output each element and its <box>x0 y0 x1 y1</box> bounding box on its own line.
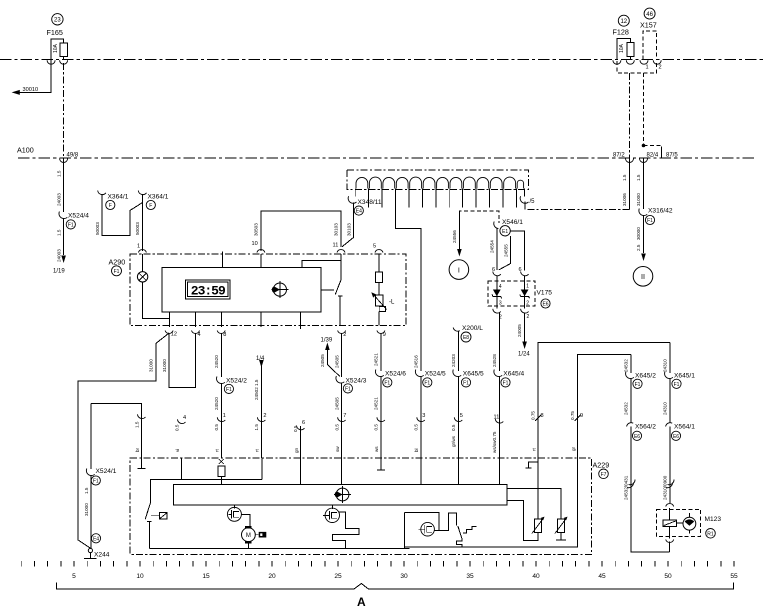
svg-text:0.75: 0.75 <box>570 411 575 420</box>
A290 bottom pin 2 arc <box>338 331 347 338</box>
wire 24521 A290 pin9 to X524/6 <box>374 333 381 371</box>
pin 6 labels and arcs above V175 <box>492 267 529 284</box>
wire 24003 (A100 49/8 down to X524/4) <box>57 159 64 213</box>
svg-text:31000: 31000 <box>84 503 89 516</box>
thermal fuse and resistor on A229 pin wire <box>218 459 225 485</box>
svg-text:24005: 24005 <box>517 324 522 337</box>
svg-text:6: 6 <box>519 267 522 273</box>
wire 24532 down to X645/2 <box>624 355 631 373</box>
ruler scale <box>21 561 734 567</box>
A290 clock module inner box <box>162 267 321 312</box>
svg-text:1/24: 1/24 <box>518 352 530 358</box>
wire 24521 X524/6 into A229 <box>374 376 385 458</box>
V175 bottom arcs and pin 2 labels <box>493 302 530 321</box>
A290 pin 1 arc <box>137 244 146 253</box>
connector X564/1 <box>666 423 696 441</box>
svg-text:0.5: 0.5 <box>293 425 298 432</box>
wire pin10 to pin11 overhead link <box>254 211 342 251</box>
svg-text:30103: 30103 <box>334 223 339 236</box>
wire X546/1 right branch <box>510 231 524 271</box>
lamp in A290 <box>137 254 169 319</box>
svg-text:I: I <box>458 265 460 274</box>
wire 24505 X524/3 into A229 <box>334 383 346 459</box>
zener diode right in V175 <box>520 284 530 303</box>
A290 pin 5 arc <box>373 244 383 253</box>
svg-text:82/4: 82/4 <box>647 153 659 159</box>
A290 bottom pin 8 arc <box>217 331 226 338</box>
svg-text:X364/1: X364/1 <box>148 193 169 200</box>
svg-text:0.5: 0.5 <box>334 424 339 431</box>
svg-text:ws: ws <box>374 446 379 452</box>
junction bump 49/8 on A100 line <box>60 159 68 163</box>
connector X564/2 <box>627 423 657 441</box>
V175 pin labels <box>499 284 529 307</box>
svg-text:24310/0900: 24310/0900 <box>663 475 668 500</box>
svg-text:10A: 10A <box>619 43 625 53</box>
wire 30010 to arrow <box>12 60 52 95</box>
transistor Q3 (MOSFET) with switch <box>404 512 476 547</box>
ground point X244 <box>84 548 110 558</box>
svg-text:24555: 24555 <box>503 244 508 257</box>
svg-text:X524/6: X524/6 <box>385 370 406 377</box>
junction bump X157 pin2 <box>653 60 661 64</box>
svg-text:gr/ws: gr/ws <box>451 435 456 447</box>
A229 internal stub pin with bar (left) <box>137 458 145 468</box>
svg-text:1: 1 <box>646 64 649 70</box>
connector X348/11 end arc <box>348 196 382 215</box>
wire 24505 A290 pin2 to X524/3 <box>334 333 341 377</box>
svg-text:24556: 24556 <box>452 230 457 243</box>
svg-text:8: 8 <box>541 413 544 419</box>
svg-text:F1: F1 <box>424 380 430 386</box>
connector X364/1 right <box>138 191 168 210</box>
A290 bottom pin 9 arc <box>377 331 386 338</box>
connector strip X348/11 contact humps and pins <box>355 177 524 207</box>
svg-text:20: 20 <box>268 573 276 580</box>
unit A290 label <box>109 257 126 276</box>
svg-text:24554: 24554 <box>489 240 494 253</box>
connector X524/1 <box>86 468 116 485</box>
svg-text:8: 8 <box>223 332 226 338</box>
wire 24554 <box>489 229 496 271</box>
wire X645/5 into A229 <box>451 376 463 458</box>
circled ref 46 <box>644 8 655 19</box>
connector X524/6 <box>375 370 406 388</box>
svg-text:11: 11 <box>333 243 339 249</box>
pump unit M123 dashed housing <box>657 509 701 536</box>
wire stub A290 pin6 resume into A229 <box>293 420 305 458</box>
svg-text:F1: F1 <box>503 380 509 386</box>
svg-text:24520: 24520 <box>214 355 219 368</box>
svg-text:2: 2 <box>343 332 346 338</box>
svg-text:3: 3 <box>422 413 425 419</box>
wire X645/4 into A229 <box>492 376 503 458</box>
A290 bottom pin 4 arc <box>192 331 201 338</box>
svg-text:24521: 24521 <box>374 353 379 366</box>
svg-text:50: 50 <box>664 573 672 580</box>
junction bump F128 left on bus <box>613 60 621 64</box>
bus wire A100 boundary line <box>18 157 756 159</box>
wire 24528 from V175 pin 3 down <box>492 313 499 372</box>
svg-text:1/39: 1/39 <box>321 338 333 344</box>
svg-text:X564/1: X564/1 <box>674 423 695 430</box>
wire inner box top right corner route <box>302 260 341 267</box>
svg-text:10: 10 <box>136 573 144 580</box>
svg-text:45: 45 <box>598 573 606 580</box>
junction bump F165 right on bus <box>60 60 68 64</box>
wire 24532 to X564/2 <box>624 378 631 423</box>
svg-text:-L: -L <box>389 300 395 306</box>
junction bump F165 left on bus <box>47 60 55 64</box>
connector X645/2 <box>626 372 657 389</box>
svg-text:12: 12 <box>620 19 627 25</box>
svg-text:R1: R1 <box>707 531 714 537</box>
svg-text:2: 2 <box>263 413 266 419</box>
svg-text:0.5: 0.5 <box>374 424 379 431</box>
svg-text:X645/5: X645/5 <box>463 370 484 377</box>
svg-text:30000: 30000 <box>636 227 641 240</box>
switch in A290 <box>321 254 342 326</box>
svg-text:30010: 30010 <box>23 87 39 93</box>
svg-text:24505: 24505 <box>334 355 339 368</box>
svg-text:X645/1: X645/1 <box>674 372 695 379</box>
svg-text:F1: F1 <box>647 218 653 224</box>
wire 24505 branch arrow to ref 1/39 <box>320 338 340 377</box>
svg-text:24532: 24532 <box>624 402 629 415</box>
svg-text:2: 2 <box>527 314 530 320</box>
svg-text:ws/sw0.75: ws/sw0.75 <box>492 431 497 453</box>
svg-text:2: 2 <box>659 64 662 70</box>
svg-text:1.5: 1.5 <box>254 424 259 431</box>
svg-text:F1: F1 <box>635 382 641 388</box>
svg-text:31000: 31000 <box>149 359 154 372</box>
svg-text:X364/1: X364/1 <box>108 193 129 200</box>
connector X645/1 <box>665 372 696 389</box>
wire ground from A290 pin12 diagonal branch <box>78 333 169 549</box>
wire 24556 with arrow to ref I <box>452 211 462 256</box>
A229 internal header wire <box>151 458 262 502</box>
svg-text:1.5: 1.5 <box>134 421 139 428</box>
circled ref 23 <box>52 14 63 25</box>
A229 left ground bus <box>149 547 409 549</box>
wire F165 output down to A100 terminal 49/8 <box>64 63 79 159</box>
connector X524/3 <box>336 376 367 393</box>
wires into circuit board top <box>301 458 500 484</box>
svg-text:X524/4: X524/4 <box>68 213 89 220</box>
svg-text:X645/4: X645/4 <box>503 370 524 377</box>
svg-text:31000: 31000 <box>636 193 641 206</box>
svg-text:9: 9 <box>383 332 386 338</box>
wire 24310 to X564/1 <box>663 378 670 423</box>
svg-text:1/19: 1/19 <box>53 269 65 275</box>
svg-text:87/5: 87/5 <box>666 153 678 159</box>
svg-text:F1: F1 <box>345 386 351 392</box>
clock display 23:59 <box>185 280 230 299</box>
junction bump F128 right on bus <box>626 60 634 64</box>
svg-text:24003: 24003 <box>57 249 62 262</box>
wire inner box bottom pins to A290 case edge <box>170 312 301 329</box>
svg-text:X316/42: X316/42 <box>648 208 673 215</box>
wire 87/2 (F128 down to A100) <box>613 73 630 159</box>
unit A229 label <box>593 460 610 478</box>
svg-text:12: 12 <box>171 331 177 337</box>
svg-text:bl: bl <box>414 448 419 452</box>
circled ref 12 <box>618 15 629 26</box>
svg-text:6: 6 <box>302 420 305 426</box>
svg-text:F: F <box>149 203 152 209</box>
wire ground header to A229 <box>91 403 146 469</box>
svg-text:4: 4 <box>198 332 201 338</box>
svg-text:2: 2 <box>526 301 529 307</box>
svg-text:49/8: 49/8 <box>67 153 79 159</box>
unit A229 housing (dash-dot) <box>130 458 591 554</box>
svg-text:0.75: 0.75 <box>531 411 536 420</box>
svg-text:E8: E8 <box>463 335 469 341</box>
fuse F165 <box>51 39 67 60</box>
wire A229 pin (violet) labels <box>174 415 186 452</box>
wire 24310/0900 down to M123 <box>663 427 674 504</box>
wire 24520 A290 pin8 to X524/2 <box>214 333 221 377</box>
unit A290 housing (dash-dot) <box>130 254 406 326</box>
wire ground bridge pin12 to pin4 <box>162 333 196 387</box>
connector X645/5 <box>453 370 484 388</box>
svg-text:4: 4 <box>183 415 186 421</box>
svg-text:1.5: 1.5 <box>57 170 62 177</box>
svg-text:X564/2: X564/2 <box>635 423 656 430</box>
svg-text:br: br <box>135 447 140 452</box>
wire X157 pin1 dashed down <box>642 73 679 159</box>
svg-text:24516: 24516 <box>413 355 418 368</box>
transistor Q1 (MOSFET) driving motor <box>227 505 250 528</box>
svg-text:11: 11 <box>494 415 500 421</box>
svg-text:24521: 24521 <box>374 397 379 410</box>
svg-text:7: 7 <box>343 413 346 419</box>
connector X157 dashed housing <box>643 31 657 60</box>
A229 internal hook stub near pin 8 wire <box>526 462 539 468</box>
svg-text:X244: X244 <box>94 551 110 558</box>
variable resistor with arrow and L label <box>371 292 395 326</box>
wire 31006 (87/2 down then left to strip /5) <box>525 159 629 210</box>
A290 pin 10 arc <box>252 241 265 253</box>
svg-text:E4: E4 <box>93 536 99 542</box>
svg-text:0.5: 0.5 <box>174 424 179 431</box>
svg-text:/5: /5 <box>530 199 536 205</box>
svg-text:1.5: 1.5 <box>84 487 89 494</box>
ruler numbers <box>72 573 738 580</box>
connector X524/2 <box>217 377 248 394</box>
svg-text:vi: vi <box>175 449 180 452</box>
connector X546/1 <box>494 219 523 236</box>
wire 24003 below X524/4 to ref 1/19 <box>53 218 66 275</box>
svg-text:24532/0431: 24532/0431 <box>624 475 629 500</box>
A229 right return bus <box>403 512 405 548</box>
clock symbol in A229 <box>334 486 351 503</box>
svg-text:F128: F128 <box>613 28 629 37</box>
wire 24555 <box>499 236 511 270</box>
svg-text:F1: F1 <box>226 387 232 393</box>
svg-text:87/2: 87/2 <box>613 153 625 159</box>
svg-text:24528: 24528 <box>492 354 497 367</box>
connector X316/42 <box>639 208 673 225</box>
svg-text:0.5: 0.5 <box>413 424 418 431</box>
A229 internal circuit board box <box>174 485 507 505</box>
svg-text:10: 10 <box>252 241 258 247</box>
svg-text:24505: 24505 <box>334 397 339 410</box>
svg-text:A290: A290 <box>109 257 126 266</box>
svg-text:24203: 24203 <box>451 354 456 367</box>
fuse F128 <box>617 38 634 59</box>
motor M in A229 <box>242 526 267 549</box>
bracket A below <box>57 583 734 610</box>
svg-text:46: 46 <box>646 12 653 18</box>
svg-text:F1: F1 <box>93 479 99 485</box>
bus wire circuit 30 (top dash-dot rail) <box>0 59 763 61</box>
svg-text:40: 40 <box>532 573 540 580</box>
svg-text:1.5: 1.5 <box>57 229 62 236</box>
wire 30000 to ref II <box>636 215 646 261</box>
svg-text:5: 5 <box>72 573 76 580</box>
svg-text:1: 1 <box>223 413 226 419</box>
node circle II <box>633 267 653 287</box>
inner box pin to A290 pin 10 <box>260 254 262 267</box>
A290 pin 11 arc <box>333 243 346 253</box>
clock symbol in A290 <box>271 281 288 298</box>
svg-text:X157: X157 <box>640 20 657 29</box>
dashed wire from ref I corner to X546/1 <box>459 211 498 223</box>
svg-text:M123: M123 <box>705 516 722 523</box>
dashed holder outline below bus (F128/X157) <box>617 61 657 73</box>
svg-text:X524/5: X524/5 <box>425 370 446 377</box>
svg-text:23:59: 23:59 <box>191 284 226 299</box>
connector X364/1 left <box>98 191 129 210</box>
connector X645/4 <box>494 370 525 388</box>
connector X524/5 <box>415 370 446 388</box>
wire 24532/0431 down and loop to M123 bottom <box>624 427 670 552</box>
svg-text:F1: F1 <box>114 269 120 275</box>
svg-text:F1: F1 <box>463 380 469 386</box>
svg-text:24003: 24003 <box>57 193 62 206</box>
svg-text:F: F <box>109 203 112 209</box>
svg-text:A229: A229 <box>593 460 610 469</box>
connector /5 end arc <box>520 196 535 209</box>
svg-text:9: 9 <box>580 413 583 419</box>
wire 31000 (82/4 down to X316/42) <box>636 159 643 210</box>
connector arc above M123 <box>666 504 674 507</box>
svg-text:E6: E6 <box>542 302 548 308</box>
wire 24516 X524/5 into A229 <box>413 376 425 458</box>
zener diode left in V175 <box>492 284 502 303</box>
svg-text:F1: F1 <box>384 380 390 386</box>
wire 50003 right X364/1 down to A290 pin 1 <box>135 194 142 251</box>
connector strip housing (dash-dot box) <box>347 170 528 189</box>
wire 24502 from ref 1/4 into A229 <box>254 356 267 458</box>
svg-text:X524/1: X524/1 <box>96 468 117 475</box>
svg-text:30503: 30503 <box>254 223 259 236</box>
wire 24203 from X200/L down <box>451 332 458 372</box>
transistor Q2 (MOSFET) with zigzag to ground bus <box>323 505 359 549</box>
svg-text:E6: E6 <box>673 434 679 440</box>
wire 31000 X524/1 to X244 <box>84 475 91 549</box>
svg-text:F165: F165 <box>47 28 63 37</box>
wire A229 pin8 overhead to X645/1 <box>531 342 670 458</box>
diode unit V175 dashed housing <box>488 281 535 306</box>
junction bump 82/4 <box>640 159 648 163</box>
svg-text:E6: E6 <box>634 434 640 440</box>
svg-text:2.5: 2.5 <box>636 244 641 251</box>
svg-text:35: 35 <box>466 573 474 580</box>
svg-text:55: 55 <box>730 573 738 580</box>
svg-text:1.5: 1.5 <box>636 174 641 181</box>
svg-text:25: 25 <box>334 573 342 580</box>
relay coil in M123 <box>663 508 677 539</box>
svg-text:gr: gr <box>571 446 576 451</box>
A290 bottom pin 12 arc <box>165 331 177 338</box>
pump motor symbol in M123 <box>677 513 696 534</box>
svg-text:50003: 50003 <box>135 222 140 235</box>
wire 24516 from strip pin down to X524/5 <box>396 208 421 372</box>
svg-text:X348/11: X348/11 <box>358 199 382 206</box>
svg-text:5: 5 <box>460 413 463 419</box>
svg-text:F1: F1 <box>68 222 74 228</box>
svg-text:15: 15 <box>202 573 210 580</box>
svg-text:II: II <box>641 272 645 281</box>
junction bump 87/2 <box>626 159 634 163</box>
svg-text:24310: 24310 <box>663 359 668 372</box>
svg-text:50003: 50003 <box>95 222 100 235</box>
svg-text:X645/2: X645/2 <box>635 372 656 379</box>
sensor R at A229 pin8 wire <box>507 458 545 540</box>
svg-text:V175: V175 <box>537 290 553 297</box>
svg-text:1: 1 <box>137 244 140 250</box>
svg-text:X546/1: X546/1 <box>502 219 523 226</box>
wire 30103 from X348/11 to A290 pin 11 <box>342 203 353 247</box>
V175 label <box>537 290 553 309</box>
svg-text:4: 4 <box>499 284 502 290</box>
svg-text:24532: 24532 <box>624 359 629 372</box>
svg-text:10A: 10A <box>53 43 59 53</box>
connector X524/4 <box>59 212 89 229</box>
wire A229 pin9 overhead to X645/2 <box>570 355 631 459</box>
svg-text:F1: F1 <box>674 382 680 388</box>
wire M123 bottom to loop <box>669 542 671 552</box>
svg-text:A: A <box>357 595 366 609</box>
svg-text:31000: 31000 <box>162 359 167 372</box>
svg-text:24502 1.5: 24502 1.5 <box>254 379 259 400</box>
svg-text:30: 30 <box>400 573 408 580</box>
svg-text:3: 3 <box>499 301 502 307</box>
svg-text:X200/L: X200/L <box>462 325 483 332</box>
svg-text:23: 23 <box>54 18 61 24</box>
svg-text:31006: 31006 <box>622 193 627 206</box>
svg-text:1.5: 1.5 <box>622 174 627 181</box>
svg-text:24520: 24520 <box>214 397 219 410</box>
svg-text:M: M <box>246 533 251 539</box>
svg-text:F7: F7 <box>601 472 607 478</box>
junction bump X157 pin1 <box>640 60 648 64</box>
svg-text:24310: 24310 <box>663 402 668 415</box>
A229 internal stub pin with bar (middle) <box>377 458 385 470</box>
svg-text:X524/3: X524/3 <box>346 377 367 384</box>
svg-text:24505: 24505 <box>320 354 325 367</box>
wire 50003 left X364/1 loop to pin 1 <box>95 194 143 236</box>
connector X200/L <box>453 325 483 342</box>
svg-text:0.5: 0.5 <box>214 424 219 431</box>
svg-text:0.5: 0.5 <box>451 424 456 431</box>
M123 label <box>705 516 722 538</box>
wire 24310 down to X645/1 <box>663 342 670 373</box>
svg-text:X524/2: X524/2 <box>226 377 247 384</box>
node circle I <box>449 260 469 280</box>
